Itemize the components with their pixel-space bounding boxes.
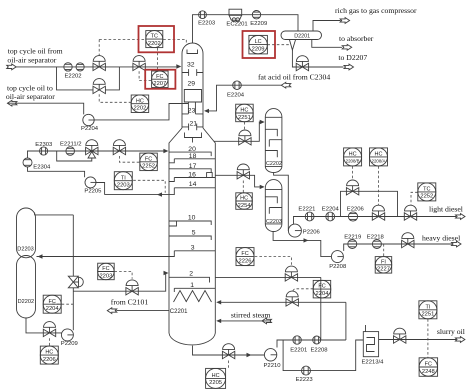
instrument HC2206 [40,346,58,364]
svg-text:E2202: E2202 [65,74,82,80]
vertical to angle valve [72,215,74,276]
svg-text:top cycle oil from: top cycle oil from [8,47,63,56]
bottom zigzag baffles [174,291,212,303]
svg-text:2226: 2226 [239,258,252,264]
svg-text:top cycle oil to: top cycle oil to [7,83,53,92]
svg-text:from C2101: from C2101 [111,298,149,307]
svg-text:2252: 2252 [142,164,155,170]
svg-text:P2210: P2210 [264,363,282,369]
pumparound return line [28,151,164,158]
P2205 draw line [105,194,169,196]
tray 14 with draw pocket [169,188,215,195]
svg-text:P2206: P2206 [303,230,321,236]
svg-text:23: 23 [188,107,196,114]
column C2201 shell [169,43,215,345]
heat exchanger E2208 [313,336,321,344]
off-page connector arrow top cycle oil inlet [7,64,17,70]
red highlight box LC2209 [243,31,276,58]
signal FC2204 to quench valve [292,289,313,291]
tray 23 [182,113,203,115]
valve valve FC2226 [285,266,297,281]
off-page connector arrow to absorber exit [342,44,352,50]
valve valve on D2202 bottoms [43,322,55,337]
stripper C2202 [265,109,282,173]
cone distributor [185,133,202,143]
red highlight box TC2202 [139,26,175,52]
signal TC2202 to column top [163,40,186,44]
valve valve FC2252 [113,140,125,155]
off-page connector arrow to D2207 exit [344,64,354,70]
to absorber line [312,40,342,48]
signal valve to FC2207 [139,71,151,80]
svg-text:E2206: E2206 [347,207,365,213]
pump P2208 [331,251,343,263]
signal FC2226 to valve [255,257,292,267]
valve valve HC2254 [237,164,249,179]
off-page connector arrow slurry oil exit [455,337,465,343]
valve valve FC2204 quench [286,291,298,306]
heat exchanger E2221 [305,212,314,221]
svg-text:rich gas to gas compressor: rich gas to gas compressor [335,6,417,15]
valve valve FC2203 [126,280,138,295]
P2205 suction riser [96,183,105,195]
tray3 draw to D2203 [37,256,170,258]
C2202 bottoms to P2206 [274,172,289,230]
svg-text:2202: 2202 [133,106,146,112]
vessel D2203 [17,208,36,258]
chimney tray section below tray 29 [184,90,201,114]
instrument FC2204 center [313,280,331,298]
svg-text:C2201: C2201 [170,309,188,315]
svg-text:E2221: E2221 [298,207,315,213]
heat exchanger E2202 shell a [64,63,72,71]
svg-text:2248: 2248 [422,369,435,375]
D2202 bottoms to P2209 [26,318,62,333]
tray 2 [169,277,210,282]
heat exchanger E2203 [199,11,207,19]
svg-text:E2219: E2219 [344,235,361,241]
svg-text:C2202: C2202 [266,161,282,167]
tray 20 [169,152,211,156]
svg-text:29: 29 [188,80,196,87]
off-page connector arrow top cycle oil return outlet [7,100,17,106]
svg-text:oil-air separator: oil-air separator [6,92,55,101]
valve valve HC2208A [372,205,384,220]
signal line to FI2227 [383,244,385,256]
instrument FI2227 [375,257,392,274]
light diesel line [294,217,457,225]
signal HC2208B [352,166,354,180]
svg-text:2208/B: 2208/B [346,159,360,164]
svg-text:2204: 2204 [46,306,60,312]
svg-text:2208/A: 2208/A [372,159,386,164]
svg-text:2202: 2202 [148,41,161,47]
svg-text:E2201: E2201 [290,347,307,353]
circulation draw line [215,276,320,278]
signal valve to HC2254 [242,181,244,193]
svg-text:TI: TI [121,175,126,181]
instrument FC2204 left [43,295,61,313]
instrument FC2203 [98,263,115,280]
instrument TI2203 [114,172,132,190]
svg-text:P2205: P2205 [84,189,102,195]
vessel D2202 [17,256,36,319]
svg-text:FI: FI [381,259,386,265]
flow arrow flow to P2208 [304,238,309,242]
svg-text:E2213/4: E2213/4 [362,360,385,366]
signal drop to valve [98,40,100,56]
svg-text:heavy diesel: heavy diesel [422,234,460,243]
svg-text:slurry oil: slurry oil [437,327,465,336]
overhead vapour line to D2201 [193,15,299,43]
reflux drum D2201 [281,31,322,40]
svg-text:HC: HC [45,350,53,356]
tray20 draw to C2202 [214,122,261,141]
FC2203 line into column [73,273,165,291]
instrument FC2248 [419,358,438,377]
heat exchanger E2204 mid [326,212,335,221]
tray 18 [169,159,215,163]
column top distributor [187,50,198,54]
flow arrow bottoms flow arrow [247,353,252,357]
signal TC2252 to valve [411,192,418,205]
svg-text:TC: TC [423,187,430,193]
svg-text:FC: FC [49,299,56,305]
svg-text:E2204: E2204 [322,207,340,213]
instrument LC2209 [249,35,268,54]
svg-text:2205: 2205 [209,380,222,386]
svg-text:21: 21 [190,120,198,127]
valve valve on bypass [93,79,105,94]
svg-text:HC: HC [349,152,357,158]
off-page connector arrow from C2101 connector [107,308,117,314]
steam generator E2213/4 [363,325,378,357]
svg-text:2209: 2209 [252,46,265,52]
heat exchanger E2201 [293,336,301,344]
heat exchanger E2211/2 [66,147,75,156]
signal FC2204 left [52,303,73,305]
stripper C2203 [265,180,282,232]
svg-text:E2209: E2209 [250,21,267,27]
off-page connector arrow rich gas exit [340,18,350,24]
off-page connector arrow light diesel exit [456,214,466,220]
heat exchanger E2223 [302,366,311,375]
valve three-way valve [86,140,98,155]
tray 32 [182,69,203,76]
valve boot valve [296,56,308,71]
instrument HC2208A [370,148,388,166]
D2203 overhead loop top [35,214,74,216]
signal TI2251 FC2248 [427,319,429,357]
svg-text:stirred steam: stirred steam [231,310,271,319]
heat exchanger E2218 [372,240,381,249]
svg-text:D2203: D2203 [17,247,33,253]
svg-text:2252: 2252 [420,194,433,200]
pump P2205 [85,177,96,188]
svg-text:2251: 2251 [238,115,251,121]
flow arrow draw flow [157,192,162,196]
drum boot [289,40,295,51]
off-page connector arrow stirred steam connector [262,318,272,324]
signal TC2202 to FC2207 [157,48,159,71]
svg-text:HC: HC [212,373,220,379]
svg-text:5: 5 [192,230,196,237]
instrument FC2226 [236,248,254,266]
svg-text:HC: HC [375,152,383,158]
pump P2210 [264,349,276,361]
heat exchanger E2303 [40,147,48,155]
top cycle oil supply line [16,66,177,68]
instrument HC2254 [236,193,253,210]
light diesel bypass [341,191,398,216]
svg-text:2203: 2203 [99,273,112,279]
tray 21 [182,124,203,131]
flow arrow into column above tray 2 [164,271,169,275]
svg-text:18: 18 [189,153,197,160]
svg-text:D2202: D2202 [18,299,34,305]
pump P2206 [288,224,301,237]
svg-text:FC: FC [241,251,248,257]
svg-text:32: 32 [187,62,195,69]
heat exchanger E2202 shell b [76,63,84,71]
feed from C2101 [116,310,169,312]
P2205 discharge to E2304 [28,167,85,177]
column bottoms line [193,346,265,355]
svg-text:E2304: E2304 [33,165,51,171]
svg-text:FC: FC [145,156,152,162]
svg-text:HC: HC [240,108,248,114]
instrument FC2252 [140,153,158,171]
svg-text:to D2207: to D2207 [338,53,367,62]
heavy diesel line [344,244,452,251]
svg-text:HC: HC [136,98,144,104]
svg-text:FC: FC [156,74,163,80]
instrument HC2202 [131,95,149,113]
valve bottoms valve HC2205 [222,344,234,359]
svg-text:E2218: E2218 [367,235,385,241]
svg-text:E2303: E2303 [35,142,53,148]
signal HC2251 to valve [243,122,245,130]
instrument HC2208B [344,148,362,166]
svg-text:E2204: E2204 [227,93,245,99]
flow arrow quench into column [216,300,221,304]
instrument TC2202 [146,31,163,48]
instrument TC2252 [418,183,436,201]
svg-text:2203: 2203 [117,183,130,189]
svg-text:E2211/2: E2211/2 [60,141,82,147]
P2210 discharge line [277,340,346,348]
svg-text:17: 17 [189,163,197,170]
valve valve heavy diesel [402,233,414,248]
flow arrow into C2203 [260,185,265,189]
P2204 suction from chimney tray [94,104,188,120]
off-page connector arrow fat acid oil inlet [281,82,291,88]
svg-text:HC: HC [240,196,248,202]
svg-text:P2208: P2208 [329,264,347,270]
svg-text:P2204: P2204 [81,126,99,132]
svg-text:light diesel: light diesel [429,204,463,213]
signal valve to HC2205 [228,361,230,369]
svg-text:TI: TI [425,304,430,310]
signal valve to HC2206 [49,338,51,346]
bypass branch down [57,67,94,90]
flow arrow into column tray 23 [204,109,209,113]
quench return into column [221,301,346,303]
svg-text:C2203: C2203 [266,219,282,225]
svg-text:fat acid oil from C2304: fat acid oil from C2304 [258,72,330,81]
svg-text:2206: 2206 [43,357,56,363]
angle valve with side actuator [68,276,83,288]
tray 3 with draw pocket to D2203 [169,251,215,257]
svg-text:2251: 2251 [421,312,434,318]
signal valve to FC2252 [119,156,139,162]
svg-text:2227: 2227 [377,267,390,273]
off-page connector arrow heavy diesel exit [452,241,462,247]
boot outlet line to D2207 [292,50,343,67]
svg-text:LC: LC [255,39,262,45]
stripping steam line [221,320,271,322]
svg-text:2204: 2204 [316,291,330,297]
red highlight box FC2207 [145,70,175,89]
flow arrow into column tray 20 [163,149,168,153]
signal LC2209 to boot [267,44,289,46]
tray16 draw to C2203 [215,175,260,187]
svg-text:to absorber: to absorber [339,34,374,43]
valve valve TC2252 [404,205,416,220]
svg-text:10: 10 [188,215,196,222]
instrument HC2251 [236,104,254,122]
instrument FC2207 [152,71,169,88]
svg-text:E2203: E2203 [198,21,216,27]
slurry oil line [379,339,456,341]
heat exchanger E2204 top [233,81,242,90]
flow arrow into D2203 [38,254,43,258]
return line to separator [7,103,83,114]
C2203 bottoms to P2208 [273,231,331,256]
svg-text:1: 1 [190,282,194,289]
heat exchanger E2209 [252,11,260,19]
svg-text:EC2201: EC2201 [226,21,247,27]
instrument TI2251 [419,301,437,319]
signal HC2208A [378,166,380,205]
riser to quench return [345,302,347,340]
signal FC2203 to valve [114,272,132,279]
svg-text:16: 16 [188,172,196,179]
tray 5 [169,236,211,240]
flow arrow into column tray 32 [176,64,181,68]
svg-text:E2223: E2223 [296,377,314,383]
svg-text:FC: FC [102,266,109,272]
valve valve HC2251 [239,130,251,145]
heat exchanger E2206 [348,212,357,221]
air cooler EC2201 [229,9,242,21]
svg-text:E2208: E2208 [311,347,329,353]
instrument HC2205 [206,368,226,388]
svg-text:2207: 2207 [153,81,166,87]
trunk vertical [320,277,322,340]
svg-text:D2201: D2201 [294,34,310,40]
three-way bypass loop [57,151,92,161]
tray 1 [174,288,215,292]
valve bypass valve HC2208B [346,180,358,195]
pump P2209 [61,329,73,341]
flow arrow steam into column [216,319,221,323]
tray 17 [169,169,211,173]
svg-text:FC: FC [318,284,325,290]
pump P2204 [83,114,94,125]
svg-text:3: 3 [191,244,195,251]
svg-text:oil-air separator: oil-air separator [7,55,56,64]
signal HC2202 to bypass valve [99,94,131,102]
tray 10 [169,221,211,226]
svg-text:P2209: P2209 [61,341,78,347]
svg-text:TC: TC [151,34,158,40]
valve valve slurry [394,328,406,343]
fat acid oil line [209,85,282,111]
svg-text:FC: FC [425,362,432,368]
bypass branch up [105,67,119,90]
tray 16 with side draw pocket [169,173,215,182]
signal TI2203 to draw line [133,180,165,193]
valve valve on top cycle supply [93,56,105,71]
heat exchanger E2219 [348,240,357,249]
valve valve FC2207 [133,56,145,71]
svg-text:2: 2 [189,271,193,278]
stub [34,213,36,216]
rich gas line [313,21,341,32]
svg-text:2254: 2254 [238,203,252,209]
vertical to P2209 [72,288,74,330]
heat exchanger E2304 [23,158,32,167]
svg-text:14: 14 [189,181,197,188]
flow arrow into C2202 [260,120,265,124]
signal TC2202 left [99,39,145,41]
branch through E2223 to E2213/4 [283,340,363,371]
